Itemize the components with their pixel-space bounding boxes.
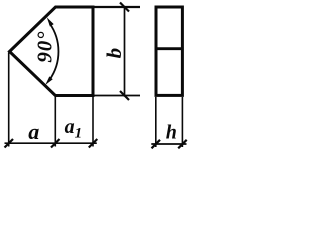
dimension line b — [124, 6, 126, 96]
svg-text:b: b — [102, 48, 126, 59]
arrowhead bottom of arc — [45, 76, 52, 85]
svg-text:h: h — [166, 122, 177, 144]
side view rectangle — [156, 7, 182, 95]
extension line right of h — [181, 97, 183, 147]
arrowhead top of arc — [47, 17, 54, 26]
angle arc 90 deg — [50, 23, 59, 79]
pentagon outline (front view) — [10, 7, 94, 96]
tick at bottom of b — [120, 91, 129, 100]
tick left end a — [5, 139, 14, 148]
tick at top of b — [120, 3, 129, 12]
extension line left of h — [155, 97, 157, 147]
divider line in side view — [155, 47, 184, 50]
dimension line h — [151, 143, 186, 145]
svg-text:90°: 90° — [33, 31, 57, 63]
extension line middle — [54, 97, 56, 147]
tick right end h — [178, 140, 187, 149]
tick left end h — [152, 140, 161, 149]
tick right end a1 — [89, 139, 98, 148]
wire bottom edge extension line for b — [93, 95, 140, 97]
extension line right (below right edge) — [92, 97, 94, 147]
extension line left (from vertex) — [8, 53, 10, 147]
tick middle a/a1 — [51, 139, 60, 148]
dimension line a / a1 — [5, 142, 97, 144]
wire top edge extension line for b — [93, 6, 140, 8]
svg-text:a: a — [28, 119, 39, 144]
